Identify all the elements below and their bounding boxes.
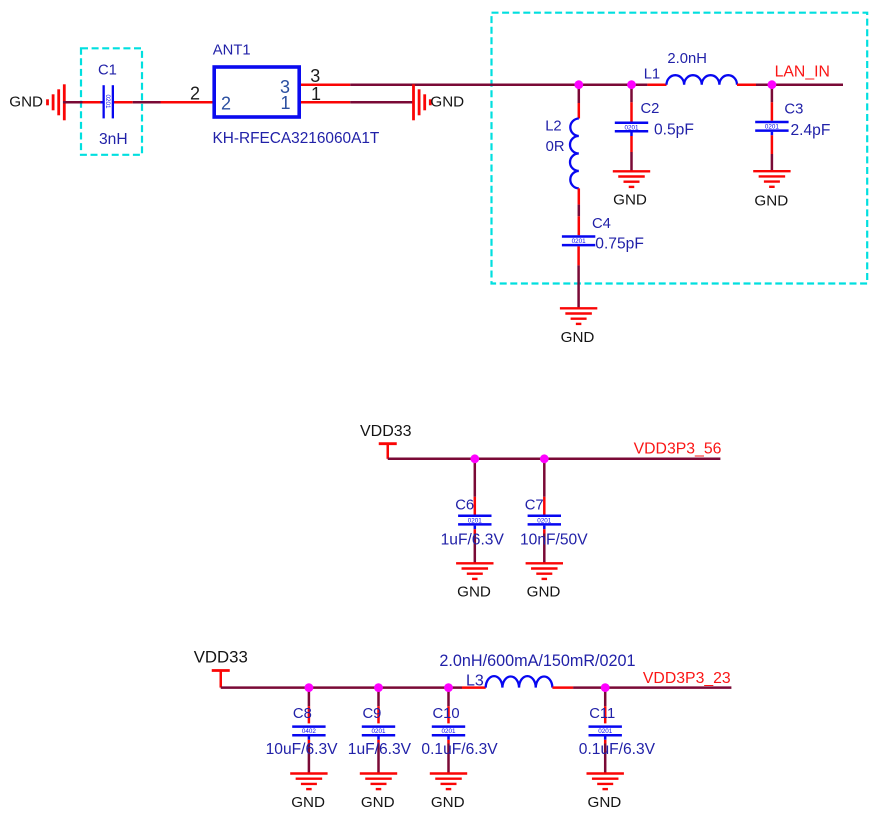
svg-text:2.0nH/600mA/150mR/0201: 2.0nH/600mA/150mR/0201	[439, 652, 635, 670]
svg-text:GND: GND	[431, 794, 465, 811]
svg-text:GND: GND	[291, 794, 325, 811]
svg-text:GND: GND	[430, 93, 464, 110]
svg-text:GND: GND	[588, 794, 622, 811]
svg-text:GND: GND	[613, 192, 647, 209]
svg-text:L2: L2	[545, 119, 561, 135]
svg-text:2: 2	[190, 83, 200, 103]
svg-text:C2: C2	[641, 101, 660, 117]
svg-text:0R: 0R	[546, 139, 565, 155]
svg-text:0201: 0201	[572, 238, 587, 245]
svg-text:0201: 0201	[624, 124, 639, 131]
svg-text:GND: GND	[361, 794, 395, 811]
svg-text:VDD3P3_56: VDD3P3_56	[634, 441, 722, 458]
svg-text:0.75pF: 0.75pF	[595, 235, 644, 252]
svg-text:C1: C1	[98, 63, 117, 79]
svg-text:C9: C9	[363, 706, 382, 722]
svg-text:1uF/6.3V: 1uF/6.3V	[348, 741, 412, 758]
svg-text:0402: 0402	[302, 728, 317, 735]
svg-text:0201: 0201	[441, 728, 456, 735]
svg-text:LAN_IN: LAN_IN	[775, 63, 830, 80]
svg-text:0.1uF/6.3V: 0.1uF/6.3V	[421, 741, 498, 758]
svg-text:2: 2	[221, 93, 231, 113]
svg-text:3nH: 3nH	[99, 131, 128, 148]
svg-text:VDD3P3_23: VDD3P3_23	[643, 670, 731, 687]
svg-text:VDD33: VDD33	[194, 647, 248, 666]
svg-text:GND: GND	[754, 193, 788, 210]
svg-text:0201: 0201	[371, 728, 386, 735]
svg-text:0201: 0201	[537, 517, 552, 524]
svg-text:C10: C10	[433, 706, 460, 722]
svg-text:1: 1	[280, 93, 290, 113]
svg-text:0.5pF: 0.5pF	[654, 122, 694, 139]
svg-text:C3: C3	[784, 102, 803, 118]
svg-text:GND: GND	[561, 329, 595, 346]
svg-text:0201: 0201	[765, 124, 780, 131]
svg-text:0.1uF/6.3V: 0.1uF/6.3V	[579, 741, 656, 758]
svg-text:1: 1	[311, 84, 321, 104]
svg-text:2.4pF: 2.4pF	[791, 122, 831, 139]
svg-text:2.0nH: 2.0nH	[667, 51, 707, 67]
svg-text:C6: C6	[455, 497, 474, 513]
svg-text:1uF/6.3V: 1uF/6.3V	[441, 532, 505, 549]
svg-text:C7: C7	[525, 497, 544, 513]
svg-text:0201: 0201	[468, 517, 483, 524]
svg-text:VDD33: VDD33	[360, 423, 412, 440]
svg-text:GND: GND	[527, 584, 561, 601]
svg-text:C4: C4	[592, 216, 611, 232]
svg-text:0201: 0201	[598, 728, 613, 735]
svg-text:0201: 0201	[104, 94, 111, 109]
svg-text:L1: L1	[644, 66, 660, 82]
svg-text:GND: GND	[457, 584, 491, 601]
svg-text:10uF/6.3V: 10uF/6.3V	[266, 741, 339, 758]
svg-text:L3: L3	[466, 673, 484, 690]
svg-text:10nF/50V: 10nF/50V	[520, 532, 588, 549]
svg-text:3: 3	[310, 66, 320, 86]
svg-text:C8: C8	[293, 706, 312, 722]
svg-text:C11: C11	[589, 706, 615, 722]
svg-text:ANT1: ANT1	[213, 42, 251, 58]
svg-text:GND: GND	[9, 93, 43, 110]
svg-text:KH-RFECA3216060A1T: KH-RFECA3216060A1T	[213, 130, 380, 147]
